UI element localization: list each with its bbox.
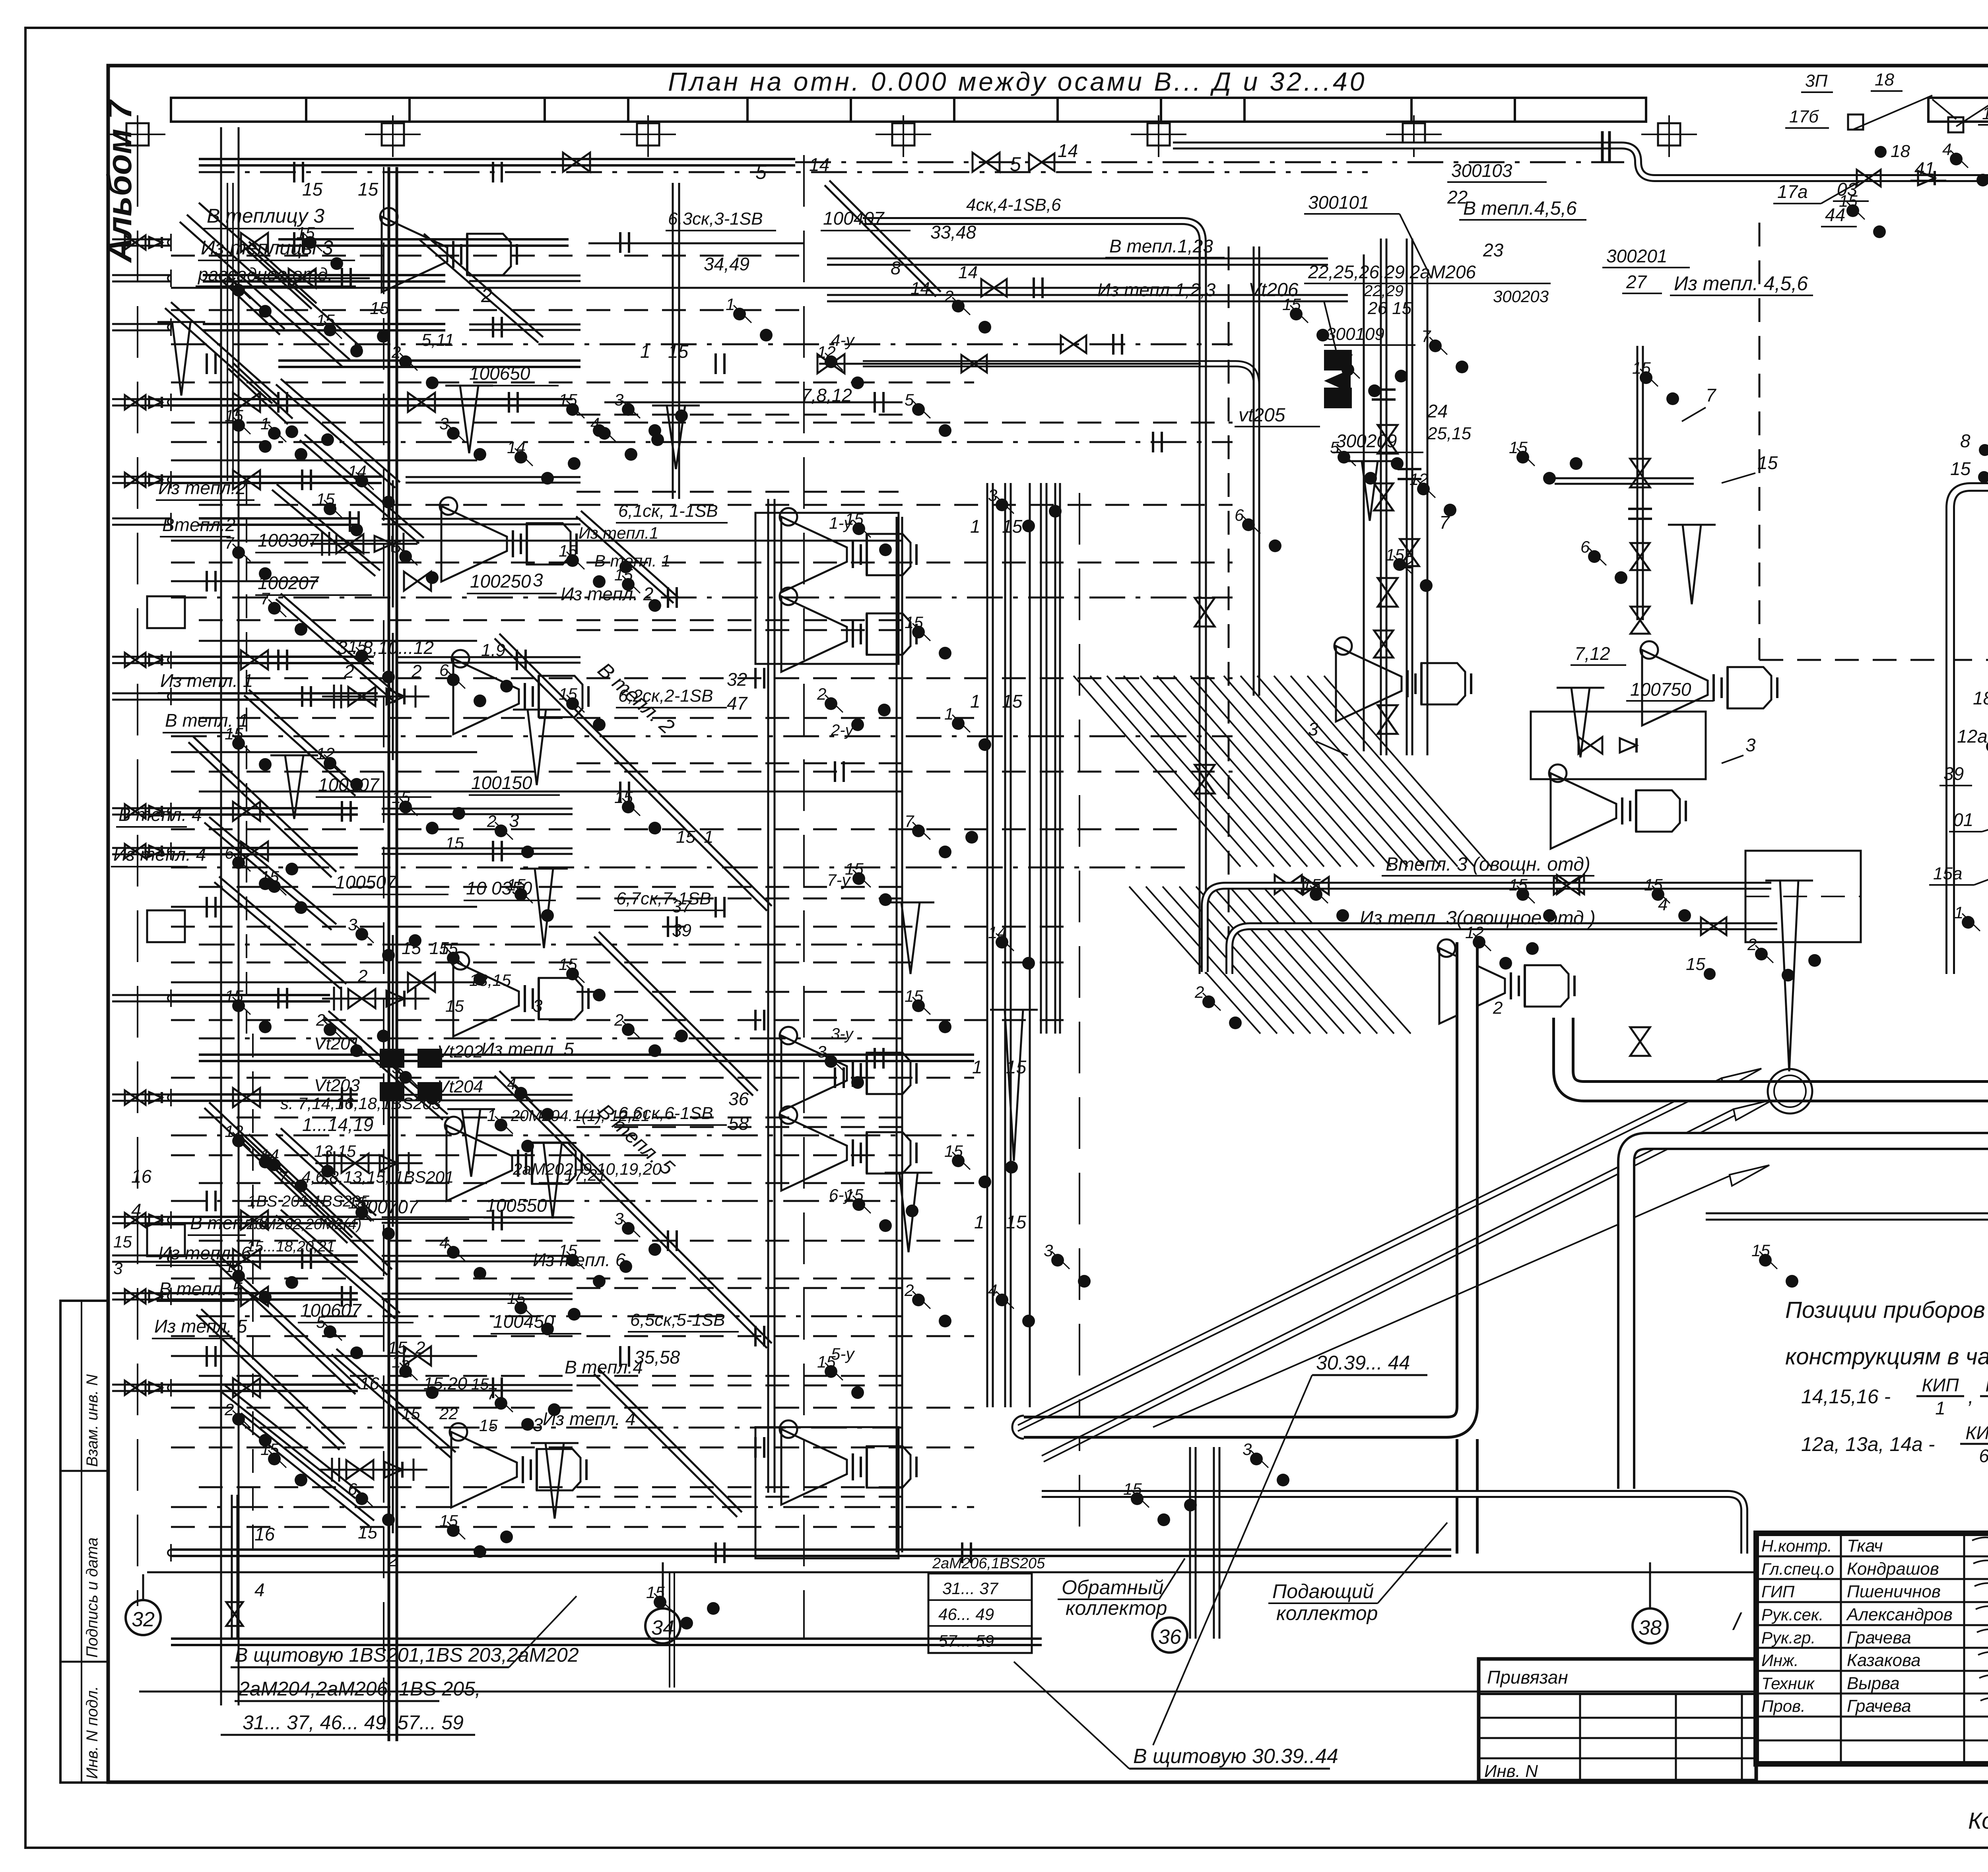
svg-text:Грачева: Грачева (1847, 1628, 1911, 1647)
underline 0 (203, 228, 354, 229)
cone funnel 6 (667, 405, 685, 469)
svg-text:Подпись и дата: Подпись и дата (83, 1537, 101, 1658)
axis/pipe centerline y866 (171, 343, 1233, 345)
svg-text:5: 5 (392, 537, 401, 556)
svg-text:01: 01 (1953, 809, 1973, 830)
flange ticks (293, 232, 295, 253)
pipe vertical x2262 (896, 517, 898, 1552)
return line y3841 (171, 1526, 903, 1528)
hatched channel 2 (1129, 887, 1260, 1034)
return line y1415 (171, 562, 1233, 564)
pipe row y4130 (171, 1637, 1042, 1640)
extra dash y2495 (577, 991, 903, 993)
svg-text:36: 36 (1158, 1626, 1181, 1649)
svg-text:3: 3 (1242, 1440, 1252, 1459)
pipe bundle x2535 (1004, 483, 1006, 1407)
cluster 300101 risers (1380, 239, 1382, 755)
steam valves (1857, 170, 1881, 186)
vt square Vt204 (417, 1082, 442, 1101)
svg-text:5: 5 (755, 161, 767, 183)
svg-text:Пшеничнов: Пшеничнов (1847, 1582, 1941, 1601)
svg-text:15: 15 (316, 311, 335, 330)
unit column 2 upper (781, 517, 847, 592)
return line y2811 (199, 1117, 903, 1119)
svg-text:15: 15 (392, 1352, 410, 1371)
left edge stubs (112, 239, 171, 241)
underline 25 (821, 230, 911, 231)
svg-text:5: 5 (316, 1313, 326, 1331)
diagonal pipe 20 (300, 440, 419, 543)
heat exchanger unit 3 (447, 1125, 512, 1201)
valve bowtie 5 (233, 802, 260, 821)
svg-text:Vt203: Vt203 (314, 1076, 360, 1095)
extra dash y2835 (577, 1126, 903, 1128)
diagonal pipe 7 (495, 1076, 767, 1348)
cone funnel 14 (462, 1109, 480, 1177)
pipe row y3166 (171, 1254, 358, 1257)
svg-text:15: 15 (1950, 458, 1971, 479)
axis circle 34 (645, 1608, 680, 1643)
extra dash y1237 (577, 491, 899, 493)
unit column 2b lower (781, 1115, 847, 1191)
line y1892 (171, 751, 477, 753)
svg-text:8: 8 (891, 258, 901, 278)
vt square Vt201 (380, 1049, 404, 1068)
svg-text:18: 18 (1891, 142, 1910, 161)
supply collector verticals (1189, 1447, 1191, 1639)
svg-text:7,12: 7,12 (1574, 643, 1610, 664)
svg-text:41: 41 (1914, 158, 1935, 179)
diagonal pipe 16 (188, 742, 332, 877)
bottom drop pipe (231, 1495, 233, 1638)
svg-text:15: 15 (559, 541, 577, 560)
svg-text:Кондрашов: Кондрашов (1847, 1559, 1939, 1579)
svg-text:57... 59: 57... 59 (938, 1631, 994, 1650)
valve bowtie 7 (404, 572, 431, 591)
return line y1063 (171, 422, 1233, 424)
svg-text:31... 37: 31... 37 (942, 1579, 999, 1598)
svg-text:2: 2 (391, 343, 401, 361)
svg-text:15: 15 (1757, 452, 1778, 473)
tr small square 2 (1948, 117, 1963, 132)
underline 3 (156, 499, 254, 501)
svg-text:20М202,20М2(4): 20М202,20М2(4) (246, 1216, 361, 1233)
svg-text:рассадное отд.: рассадное отд. (197, 264, 333, 285)
svg-text:6,3ск,3-1SВ: 6,3ск,3-1SВ (668, 209, 763, 229)
svg-text:38: 38 (1639, 1616, 1662, 1639)
vt square Vt202 (417, 1049, 442, 1068)
svg-text:s. 7,14,16,18,1BS203: s. 7,14,16,18,1BS203 (280, 1094, 441, 1113)
svg-text:2: 2 (614, 1011, 623, 1029)
axis 34 leader (662, 1562, 664, 1608)
svg-text:15: 15 (668, 341, 689, 362)
svg-text:Из тепл. 2: Из тепл. 2 (561, 584, 653, 604)
return line y2331 (171, 926, 1074, 928)
svg-text:14,15,16 -: 14,15,16 - (1801, 1385, 1891, 1408)
underline 18 (298, 1322, 414, 1323)
loop main duct (1563, 283, 1988, 1091)
cone funnel 9 (1780, 881, 1798, 1071)
svg-text:6,7ск,7-1SВ: 6,7ск,7-1SВ (616, 889, 711, 908)
svg-text:4: 4 (590, 414, 600, 433)
svg-text:14: 14 (348, 462, 367, 481)
extra dash y3765 (577, 1496, 903, 1498)
svg-text:15: 15 (402, 1404, 420, 1423)
thin pipe arrow A (1722, 1069, 1761, 1089)
pipe row ext y823 (469, 324, 580, 326)
svg-text:3: 3 (614, 1209, 623, 1228)
svg-text:15: 15 (358, 179, 379, 200)
svg-text:Vt204: Vt204 (437, 1077, 483, 1096)
return line y3216 (171, 1278, 974, 1280)
svg-text:коллектор: коллектор (1276, 1602, 1378, 1624)
svg-text:Ткач: Ткач (1847, 1536, 1883, 1556)
extra dash y3240 (577, 1287, 903, 1289)
underline 4 (160, 536, 231, 537)
svg-text:300201: 300201 (1606, 246, 1668, 266)
line y4255 (139, 1691, 1757, 1693)
line y2281 (171, 906, 477, 908)
cone funnel 2 (535, 869, 553, 948)
heat exchanger unit 2 (453, 961, 519, 1036)
valve vertical 3 (1630, 459, 1650, 487)
valve bowtie 9 (241, 1210, 268, 1230)
axis 32 leader (142, 1574, 144, 1600)
collector duct (1024, 942, 1467, 1427)
unit column 2c (781, 1429, 847, 1505)
underline 9 (188, 1234, 246, 1236)
valve bowtie 12 (233, 1378, 260, 1397)
column 2 square (637, 123, 659, 145)
svg-text:vt205: vt205 (1239, 405, 1285, 426)
svg-text:3: 3 (439, 414, 448, 433)
svg-text:ГИП: ГИП (1761, 1582, 1795, 1601)
instrument dots (324, 324, 336, 336)
diagonal pipe 18 (244, 1140, 387, 1275)
svg-text:1: 1 (974, 1212, 984, 1232)
return line y1560 (199, 619, 903, 621)
svg-text:3: 3 (533, 570, 543, 590)
cone funnel 4 (546, 1443, 564, 1519)
svg-text:15: 15 (1302, 875, 1321, 894)
svg-text:18: 18 (1973, 688, 1988, 708)
svg-text:Подающий: Подающий (1272, 1580, 1374, 1602)
heat exchanger unit 4 (451, 1432, 517, 1507)
cone funnel 8 (1571, 688, 1590, 757)
valve bowtie 0 (241, 233, 268, 252)
svg-text:35,58: 35,58 (634, 1347, 680, 1368)
svg-text:32: 32 (727, 669, 747, 690)
svg-text:5,11: 5,11 (421, 330, 454, 350)
svg-text:Александров: Александров (1846, 1605, 1953, 1624)
lower pipe duct (1042, 1494, 1744, 1554)
diagonal pipe 10 (576, 516, 674, 603)
diagonal pipe 23 (276, 1215, 395, 1319)
line y3411 (171, 1355, 477, 1357)
cone funnel 3 (544, 1143, 562, 1218)
underline 30 (628, 1331, 739, 1333)
axis/pipe centerline y3791 (171, 1506, 974, 1508)
diagonal pipe 19 (276, 384, 395, 488)
thin pipe arrow C (1730, 1165, 1769, 1186)
axis line vertical x2715 (1079, 493, 1080, 1550)
svg-text:22: 22 (1447, 187, 1468, 208)
svg-text:39: 39 (1943, 763, 1964, 784)
svg-text:100507: 100507 (335, 872, 397, 892)
diagonal pipe 4 (220, 1391, 355, 1498)
svg-text:15: 15 (614, 565, 633, 584)
svg-text:15: 15 (439, 939, 458, 958)
cone funnel 10 (1005, 1010, 1023, 1161)
underline 13 (255, 552, 370, 553)
svg-text:15: 15 (507, 875, 526, 894)
top-left unit heat exchanger (382, 217, 447, 292)
pipe to greenhouses 1-2-3 supply (827, 258, 1328, 260)
axis/pipe centerline y1852 (171, 735, 1233, 737)
svg-text:4: 4 (1942, 140, 1951, 159)
svg-text:15: 15 (1686, 954, 1705, 974)
underline 27 (616, 707, 727, 708)
svg-text:5: 5 (1330, 438, 1340, 457)
pipe row y2041 (171, 807, 358, 809)
svg-text:6: 6 (1580, 537, 1590, 556)
center duct down2 (863, 364, 1256, 398)
gh3 small unit (1439, 948, 1505, 1024)
axis circle 32 (126, 1600, 161, 1635)
return line y2976 (199, 1182, 974, 1184)
pipe end caps (170, 234, 172, 251)
svg-text:6: 6 (348, 1480, 357, 1498)
flange 17a (1601, 131, 1604, 163)
cone funnel 1 (528, 710, 546, 785)
cone funnel 7 (1683, 525, 1701, 604)
svg-text:15: 15 (1006, 1057, 1027, 1077)
pipe row y610 (278, 238, 569, 241)
axis line vertical x2022 (803, 155, 805, 1638)
underline 29 (616, 1124, 727, 1126)
svg-text:12: 12 (316, 744, 335, 763)
svg-text:15: 15 (471, 1375, 489, 1393)
pipe to greenhouses 1-2-3 return (827, 294, 1348, 296)
svg-text:4: 4 (507, 1074, 516, 1093)
svg-text:Из тепл.1,2,3: Из тепл.1,2,3 (1097, 279, 1216, 300)
steam duct (1173, 145, 1988, 217)
extra dash y1920 (577, 762, 903, 764)
valve vertical 0 (1378, 425, 1398, 454)
svg-text:6,5ск,5-1SВ: 6,5ск,5-1SВ (630, 1310, 725, 1330)
svg-text:24: 24 (1427, 401, 1448, 421)
pipe row ext y1660 (398, 656, 580, 658)
svg-text:4ск,4-1SВ,6: 4ск,4-1SВ,6 (966, 195, 1061, 215)
svg-text:2: 2 (481, 284, 492, 307)
pipe row y3069 (171, 1216, 358, 1218)
valve group unit 4 (320, 1469, 427, 1471)
pipe row ext y2041 (382, 808, 573, 810)
valve bowtie 10 (233, 1249, 260, 1268)
svg-text:Инв. N подл.: Инв. N подл. (83, 1686, 101, 1779)
pipe row ext y3069 (382, 1216, 573, 1218)
svg-text:2аМ204,2аМ206, 1BS 205,: 2аМ204,2аМ206, 1BS 205, (238, 1678, 481, 1700)
svg-text:15: 15 (479, 1416, 498, 1435)
cluster unit left (1336, 646, 1402, 722)
valve bowtie 16 (1275, 875, 1302, 894)
return line y3641 (171, 1447, 974, 1449)
diagonal pipe 3 (214, 882, 342, 989)
svg-text:300101: 300101 (1308, 192, 1369, 213)
unit column 2 frame (755, 513, 899, 664)
riser x3025 (1199, 246, 1201, 974)
svg-text:22,25,26,29,2аМ206: 22,25,26,29,2аМ206 (1308, 262, 1476, 282)
svg-text:Из тепл. 6: Из тепл. 6 (533, 1249, 626, 1270)
svg-text:Из тепл. 5: Из тепл. 5 (481, 1039, 574, 1059)
svg-text:15: 15 (676, 827, 695, 847)
axis 38 leader (1649, 1562, 1651, 1608)
svg-text:Из тепл.1: Из тепл.1 (579, 524, 658, 542)
svg-text:15: 15 (817, 1352, 836, 1371)
svg-text:1: 1 (1954, 903, 1963, 922)
pipe row y915 (278, 359, 580, 362)
pipe row ext y2761 (382, 1094, 573, 1096)
svg-text:16: 16 (360, 1374, 379, 1393)
extra valve x2620 (1029, 153, 1054, 171)
svg-text:58: 58 (728, 1113, 749, 1134)
svg-text:300103: 300103 (1451, 160, 1512, 181)
svg-text:Пров.: Пров. (1761, 1697, 1806, 1715)
extra dash y1585 (577, 629, 903, 631)
svg-text:46... 49: 46... 49 (938, 1605, 994, 1624)
svg-text:6: 6 (439, 661, 449, 679)
valve vertical 4 (1195, 598, 1215, 627)
pipe row y2661 (199, 1053, 974, 1056)
svg-text:8: 8 (1960, 431, 1971, 451)
pipe row ext y700 (469, 275, 580, 277)
svg-text:5: 5 (225, 271, 234, 290)
valve bowtie 18 (563, 153, 590, 172)
svg-text:100107: 100107 (318, 774, 380, 795)
svg-text:Втепл.2: Втепл.2 (162, 514, 235, 535)
svg-text:3П: 3П (1805, 71, 1827, 91)
svg-text:2: 2 (411, 661, 422, 682)
cluster valve stack (1374, 483, 1393, 510)
vt206 black square (1324, 350, 1352, 371)
tr small square 1 (1848, 114, 1863, 130)
svg-text:15: 15 (646, 1583, 665, 1602)
svg-text:15: 15 (445, 834, 464, 852)
svg-text:6: 6 (1979, 1445, 1988, 1466)
svg-text:Гл.спец.о: Гл.спец.о (1761, 1560, 1834, 1578)
return line y3541 (171, 1407, 974, 1409)
svg-text:15: 15 (225, 406, 243, 425)
underline 16 (333, 894, 448, 895)
svg-text:7: 7 (487, 1384, 497, 1403)
pipe row y823 (203, 323, 445, 325)
cone funnel 0 (172, 322, 190, 396)
valve bowtie 2 (408, 393, 435, 412)
line y724 (171, 287, 1201, 289)
diagonal pipe 21 (276, 599, 395, 702)
pipe row y1207 (171, 475, 382, 478)
pipe row ext y3261 (382, 1293, 573, 1295)
return line y2711 (171, 1077, 974, 1079)
svg-text:1: 1 (1935, 1398, 1945, 1418)
underline 21 (464, 900, 556, 901)
axis circle 38 (1633, 1608, 1668, 1643)
svg-text:Рук.сек.: Рук.сек. (1761, 1605, 1823, 1624)
axis/pipe centerline y433 (199, 171, 1368, 173)
svg-text:15: 15 (113, 1232, 132, 1251)
svg-text:17а: 17а (1777, 181, 1808, 202)
pipe bundle x2625 (1040, 483, 1042, 1034)
axis/pipe centerline y2612 (199, 1038, 903, 1040)
svg-text:15: 15 (1002, 691, 1023, 712)
diagonal pipe 25 (594, 937, 753, 1096)
svg-text:100250: 100250 (470, 571, 531, 592)
underline 31 (666, 230, 776, 231)
unit 0 riser tie (392, 480, 394, 607)
underline 24 (467, 385, 559, 386)
svg-text:100307: 100307 (258, 530, 319, 551)
svg-text:12: 12 (1465, 923, 1484, 942)
svg-text:1: 1 (640, 341, 650, 362)
diagonal pipe 11 (276, 1134, 371, 1221)
return line y780 (171, 309, 803, 311)
underline 22 (483, 1217, 575, 1218)
underline 19 (467, 593, 557, 594)
svg-text:18: 18 (1875, 70, 1894, 89)
diagonal pipe 17 (196, 1315, 340, 1450)
svg-text:15: 15 (559, 685, 577, 703)
svg-text:12: 12 (225, 1122, 243, 1141)
pipe row y2141 (171, 847, 358, 849)
svg-text:3: 3 (1745, 735, 1756, 755)
svg-text:7: 7 (1421, 327, 1431, 345)
svg-text:2: 2 (344, 661, 354, 682)
unit 2 riser tie (392, 935, 394, 1062)
underline 7 (116, 826, 187, 828)
svg-text:14: 14 (988, 923, 1007, 942)
svg-text:2: 2 (415, 1338, 425, 1358)
pipe row y1312 (199, 517, 358, 520)
svg-text:300203: 300203 (1493, 287, 1549, 306)
svg-text:Vt202: Vt202 (437, 1042, 483, 1061)
loop H1 ring (1768, 1069, 1812, 1114)
axis/pipe centerline y1112 (171, 441, 1233, 443)
svg-text:100407: 100407 (823, 208, 885, 229)
svg-text:2: 2 (944, 287, 953, 306)
return line y643 (171, 255, 803, 257)
valve bowtie 6 (241, 842, 268, 861)
svg-text:34,49: 34,49 (704, 254, 749, 274)
svg-text:15: 15 (225, 1257, 243, 1276)
svg-text:Казакова: Казакова (1847, 1651, 1921, 1670)
svg-text:100550: 100550 (486, 1195, 547, 1216)
extra valve x2700 (1061, 336, 1086, 353)
small table bottom (928, 1573, 1032, 1653)
pipe row y700 (203, 274, 445, 276)
svg-text:1: 1 (944, 704, 953, 723)
pipe bundle x2660 (1054, 483, 1056, 1034)
unit column 2 lower (781, 596, 847, 672)
main riser x988 (388, 167, 390, 1741)
right bottom line (1706, 1212, 1988, 1214)
svg-text:2: 2 (1747, 935, 1757, 954)
axis/pipe centerline y2182 (171, 867, 1185, 869)
return line y3121 (199, 1240, 974, 1242)
svg-text:15: 15 (1509, 875, 1528, 894)
underline 20 (469, 794, 560, 796)
svg-text:12а, 13а, 14а -: 12а, 13а, 14а - (1801, 1433, 1935, 1455)
svg-text:37: 37 (672, 897, 692, 916)
